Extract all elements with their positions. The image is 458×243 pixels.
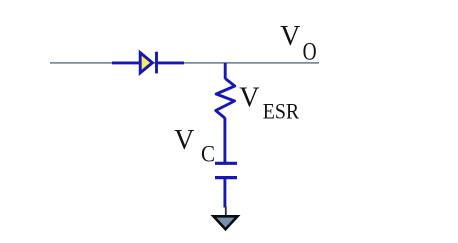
svg-text:O: O — [303, 38, 317, 65]
svg-text:ESR: ESR — [263, 99, 300, 124]
svg-text:V: V — [239, 82, 259, 113]
svg-text:C: C — [201, 142, 215, 167]
svg-text:V: V — [280, 21, 300, 52]
svg-text:V: V — [174, 125, 194, 156]
